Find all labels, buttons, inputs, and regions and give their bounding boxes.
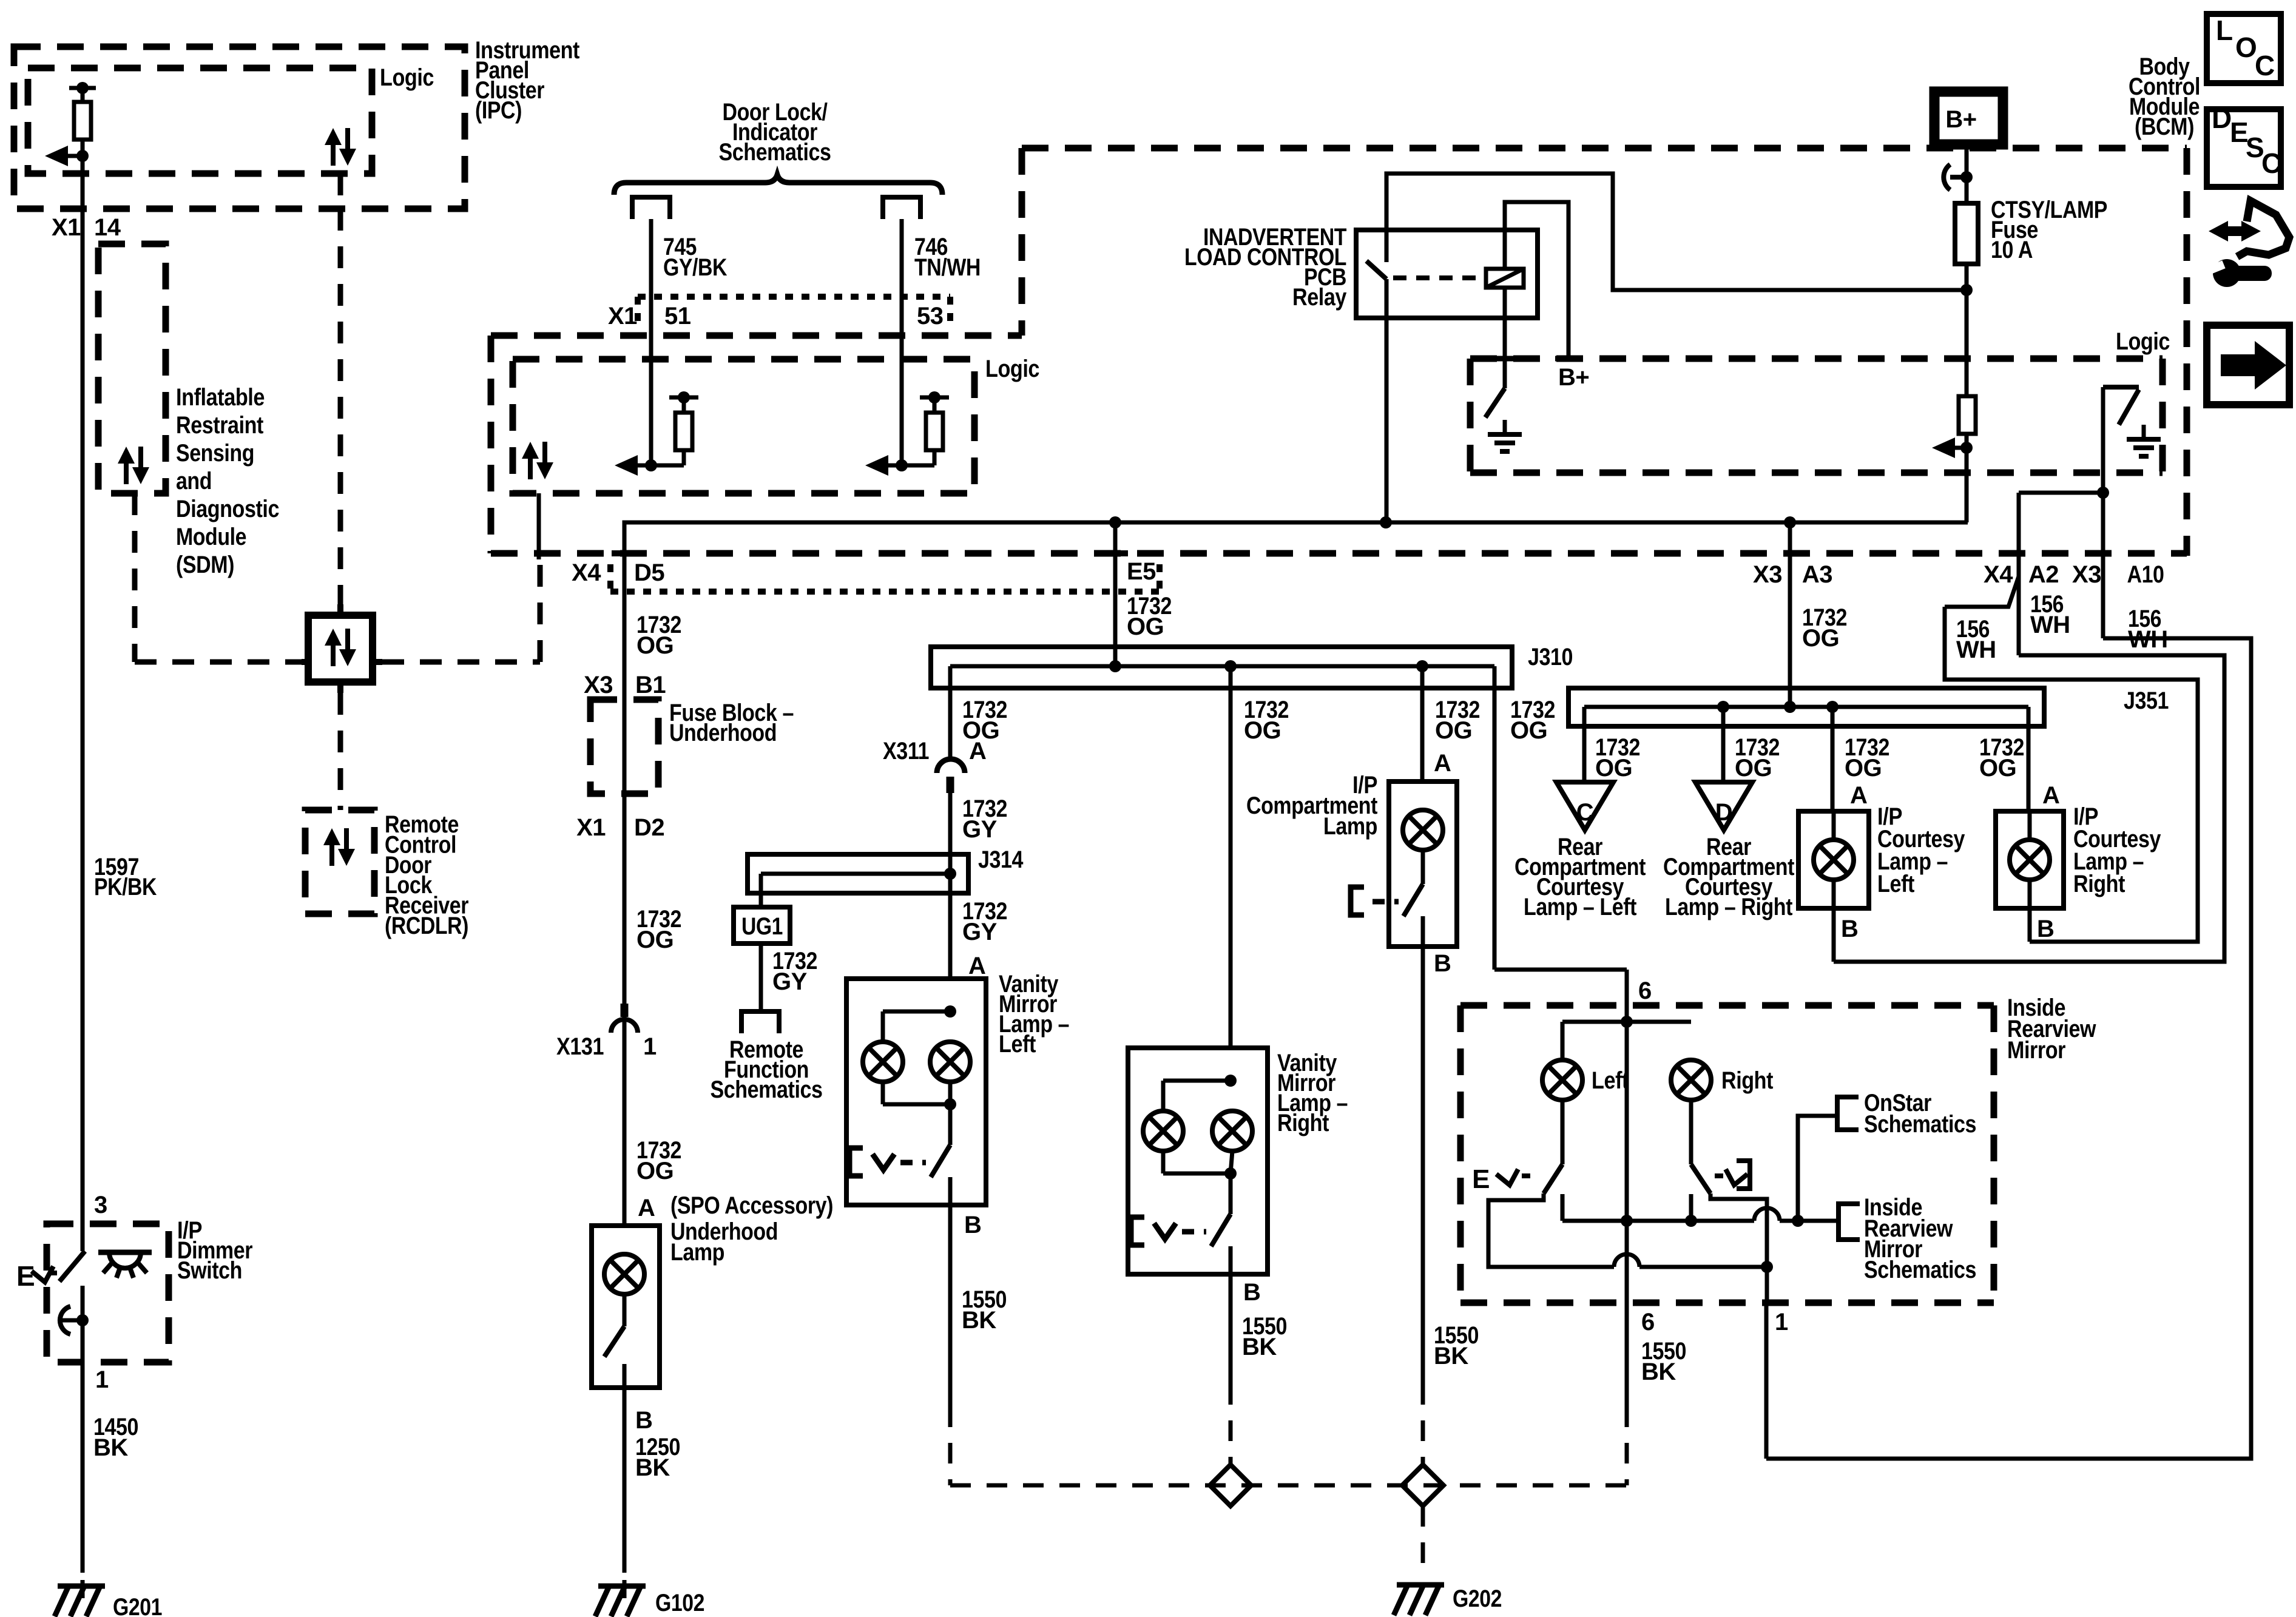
svg-text:X4: X4 [572,559,601,586]
svg-text:E: E [16,1260,35,1292]
svg-text:Left: Left [1877,871,1914,897]
svg-text:Schematics: Schematics [1864,1111,1976,1138]
svg-text:6: 6 [1638,977,1652,1004]
svg-text:Lamp: Lamp [1323,813,1377,840]
svg-text:(RCDLR): (RCDLR) [385,913,468,939]
svg-text:A: A [969,738,986,765]
svg-text:X131: X131 [556,1033,604,1060]
svg-text:J314: J314 [978,846,1024,873]
svg-text:1: 1 [1775,1309,1788,1335]
svg-text:A3: A3 [1802,561,1832,588]
svg-text:WH: WH [2128,626,2168,653]
svg-text:Left: Left [999,1031,1036,1058]
svg-text:GY: GY [772,968,808,995]
svg-text:Right: Right [2073,871,2125,897]
svg-text:OG: OG [1845,755,1882,781]
svg-text:B: B [1434,950,1451,977]
svg-text:Mirror: Mirror [2007,1037,2065,1064]
svg-text:Relay: Relay [1292,284,1347,311]
svg-text:OG: OG [1435,717,1472,744]
svg-text:(IPC): (IPC) [475,97,522,124]
svg-text:D: D [1715,799,1732,826]
svg-text:X1: X1 [608,303,637,329]
svg-text:G201: G201 [113,1594,162,1617]
svg-text:J310: J310 [1528,644,1573,670]
svg-text:X3: X3 [1753,561,1782,588]
svg-text:Switch: Switch [177,1257,242,1284]
svg-text:BK: BK [1434,1343,1468,1369]
svg-text:OG: OG [1127,613,1164,640]
svg-text:OG: OG [1735,755,1772,781]
svg-text:J351: J351 [2124,687,2169,714]
svg-text:X1: X1 [52,214,81,241]
svg-text:TN/WH: TN/WH [914,254,981,281]
svg-text:Logic: Logic [985,356,1039,382]
svg-text:B: B [635,1407,652,1434]
svg-text:B+: B+ [1558,364,1589,391]
svg-text:OG: OG [1510,717,1547,744]
svg-text:3: 3 [94,1192,107,1218]
svg-text:Underhood: Underhood [669,720,777,746]
svg-text:B: B [2037,916,2054,942]
svg-text:D: D [2212,103,2232,134]
svg-text:X3: X3 [2072,561,2101,588]
svg-text:10 A: 10 A [1991,237,2033,263]
svg-text:A10: A10 [2127,561,2164,588]
svg-text:Schematics: Schematics [1864,1257,1976,1283]
svg-text:B: B [1243,1279,1260,1306]
svg-text:14: 14 [94,214,121,241]
svg-text:UG1: UG1 [741,913,783,940]
svg-text:Inflatable: Inflatable [176,384,265,411]
svg-text:GY/BK: GY/BK [663,254,728,281]
svg-text:GY: GY [962,816,998,843]
svg-text:BK: BK [93,1434,128,1461]
svg-text:OG: OG [1244,717,1281,744]
svg-text:WH: WH [2030,612,2070,638]
svg-text:Diagnostic: Diagnostic [176,496,279,522]
svg-text:D2: D2 [634,814,664,841]
svg-text:C: C [2261,147,2281,179]
svg-text:Lamp: Lamp [670,1239,724,1266]
svg-text:BK: BK [1242,1334,1277,1360]
svg-text:A: A [2042,782,2059,809]
svg-text:E: E [1472,1164,1490,1194]
svg-text:G202: G202 [1453,1585,1502,1612]
svg-text:B: B [1841,916,1858,942]
svg-text:Logic: Logic [380,64,434,91]
svg-text:Restraint: Restraint [176,412,263,439]
svg-text:51: 51 [664,303,691,329]
svg-text:OG: OG [1979,755,2016,781]
svg-text:OG: OG [1595,755,1632,781]
svg-text:Schematics: Schematics [719,139,831,166]
svg-text:B+: B+ [1945,106,1976,133]
svg-text:Left: Left [1592,1067,1629,1094]
svg-text:PK/BK: PK/BK [94,874,157,900]
svg-text:X1: X1 [576,814,606,841]
svg-text:A: A [1850,782,1867,809]
svg-text:A: A [1434,750,1451,777]
svg-text:Sensing: Sensing [176,440,254,467]
svg-text:Lamp – Left: Lamp – Left [1524,894,1636,920]
svg-text:Right: Right [1277,1110,1329,1136]
svg-text:D5: D5 [634,559,664,586]
svg-text:Logic: Logic [2116,328,2170,355]
svg-text:OG: OG [636,927,674,953]
svg-text:X4: X4 [1984,561,2013,588]
svg-text:Schematics: Schematics [711,1076,823,1103]
svg-text:G102: G102 [655,1590,704,1616]
svg-text:1: 1 [95,1366,109,1393]
svg-text:A2: A2 [2028,561,2059,588]
svg-text:A: A [638,1195,655,1221]
svg-text:X311: X311 [883,738,929,765]
svg-text:OG: OG [636,632,674,659]
svg-text:B: B [964,1212,981,1238]
svg-text:OG: OG [636,1158,674,1184]
svg-text:B1: B1 [635,672,666,698]
svg-text:Lamp – Right: Lamp – Right [1665,894,1792,920]
svg-text:Module: Module [176,524,246,550]
svg-text:53: 53 [917,303,944,329]
svg-text:WH: WH [1956,636,1996,663]
svg-text:Right: Right [1721,1067,1773,1094]
svg-text:6: 6 [1641,1309,1655,1335]
svg-text:C: C [1576,799,1593,826]
svg-text:(SPO Accessory): (SPO Accessory) [670,1192,833,1219]
svg-text:(BCM): (BCM) [2135,113,2194,140]
svg-text:A: A [968,953,985,979]
svg-text:1: 1 [643,1033,657,1060]
svg-text:O: O [2235,32,2257,63]
svg-text:C: C [2255,50,2275,81]
svg-text:and: and [176,468,212,495]
svg-text:BK: BK [962,1307,996,1334]
svg-text:BK: BK [1641,1359,1676,1385]
svg-text:L: L [2216,15,2233,46]
svg-text:BK: BK [635,1454,670,1481]
svg-text:OG: OG [1802,625,1839,652]
svg-text:GY: GY [962,919,998,945]
svg-text:E5: E5 [1127,558,1156,585]
svg-text:(SDM): (SDM) [176,552,234,578]
svg-text:X3: X3 [584,672,613,698]
